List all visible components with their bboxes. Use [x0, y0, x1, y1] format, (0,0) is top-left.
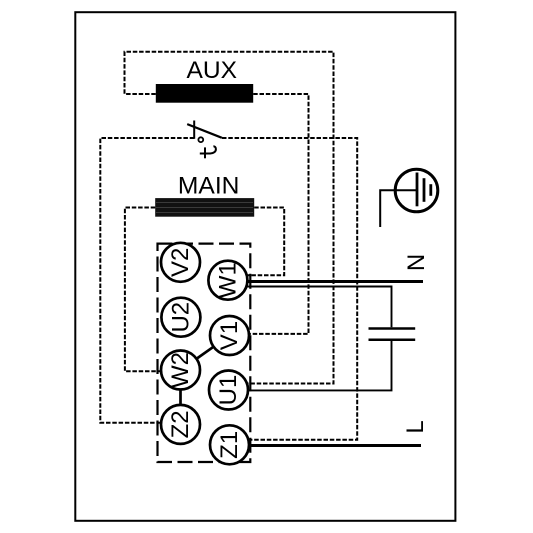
- wire thermal switch right to Z1: [222, 138, 357, 440]
- wire AUX right terminal to V1: [249, 94, 309, 334]
- terminal V1: [210, 316, 249, 355]
- terminal V2: [161, 243, 200, 282]
- svg-text:MAIN: MAIN: [178, 173, 240, 200]
- svg-text:L: L: [402, 420, 429, 433]
- earth symbol: [380, 169, 438, 227]
- svg-text:V1: V1: [216, 321, 243, 350]
- svg-text:AUX: AUX: [187, 57, 238, 84]
- aux winding AUX: [156, 84, 253, 103]
- thermal switch t°: [187, 121, 222, 159]
- svg-text:U2: U2: [167, 302, 194, 333]
- terminal Z2: [161, 405, 200, 444]
- capacitor C: [369, 329, 416, 340]
- wire MAIN left terminal to W2: [125, 208, 162, 372]
- wire capacitor bottom to U1: [248, 341, 392, 390]
- wire Z1 to L supply: [249, 444, 421, 447]
- main winding MAIN: [155, 198, 254, 217]
- link W2-Z2: [179, 390, 182, 405]
- wire W1 to capacitor top: [247, 287, 392, 328]
- svg-text:W2: W2: [167, 352, 194, 388]
- terminal block: [158, 244, 251, 462]
- wire MAIN right terminal to W1: [247, 208, 285, 276]
- link W2-V1: [196, 347, 214, 359]
- wire thermal switch left to Z2: [100, 138, 194, 423]
- terminal W2: [161, 351, 200, 390]
- svg-text:U1: U1: [215, 375, 242, 406]
- enclosure outline: [75, 12, 455, 521]
- wire W1 to N supply: [247, 280, 423, 283]
- svg-text:N: N: [403, 254, 430, 271]
- terminal W1: [208, 261, 247, 300]
- wire AUX left terminal to U1: [125, 52, 334, 384]
- svg-text:Z1: Z1: [216, 431, 243, 459]
- terminal U1: [209, 371, 248, 410]
- svg-text:W1: W1: [214, 262, 241, 298]
- terminal U2: [161, 298, 200, 337]
- svg-text:Z2: Z2: [167, 410, 194, 438]
- svg-text:V2: V2: [167, 248, 194, 277]
- terminal Z1: [210, 425, 249, 464]
